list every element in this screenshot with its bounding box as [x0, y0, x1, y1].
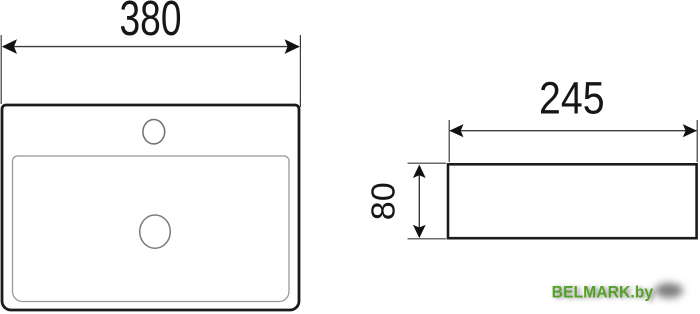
dimension 380: dimension line: [3, 46, 299, 48]
dimension 80: top extension line: [408, 162, 447, 164]
watermark smudge blob: [655, 283, 683, 298]
dimension 245: dimension line: [450, 130, 697, 132]
washbasin top view: outer rim: [2, 105, 299, 310]
dimension 80: top arrowhead: [413, 165, 426, 179]
dimension 80: dimension line: [418, 166, 420, 237]
dimension 380: right arrowhead: [285, 39, 300, 54]
cabinet side view: body rectangle: [448, 164, 697, 238]
dimension 245: right arrowhead: [683, 124, 697, 137]
drain hole: [140, 215, 171, 248]
dimension 380: left arrowhead: [2, 39, 17, 54]
dimension 245: left extension line: [448, 120, 450, 162]
svg-text:80: 80: [366, 182, 403, 220]
washbasin top view: inner basin edge: [13, 156, 290, 302]
faucet hole: [143, 120, 165, 144]
dimension 245: left arrowhead: [449, 124, 463, 137]
dimension 380: right extension line: [299, 35, 301, 107]
svg-text:380: 380: [120, 0, 182, 46]
dimension 80: bottom extension line: [408, 238, 447, 240]
dimension 380: left extension line: [0, 35, 2, 104]
dimension 245: right extension line: [696, 120, 698, 162]
svg-text:BELMARK.by: BELMARK.by: [552, 284, 654, 302]
dimension 80: bottom arrowhead: [413, 225, 426, 239]
svg-text:245: 245: [539, 72, 605, 123]
